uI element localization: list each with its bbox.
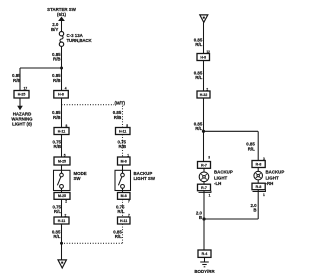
wire	[61, 135, 63, 158]
pin 1	[127, 154, 129, 158]
wire label 0.85 R/B	[52, 73, 61, 83]
wire label 0.75 R/B	[52, 140, 61, 150]
svg-text:BACKUP: BACKUP	[214, 170, 233, 175]
wire label 0.85 R/B	[52, 110, 61, 120]
svg-text:LIGHT: LIGHT	[214, 175, 227, 180]
svg-text:R/B: R/B	[53, 144, 61, 149]
junction node	[60, 67, 63, 70]
wire label 0.85 R/L	[194, 37, 203, 47]
svg-text:R/L: R/L	[195, 126, 202, 131]
switch MODE SW	[54, 170, 71, 190]
svg-text:B: B	[253, 207, 256, 212]
node STARTER SW label	[47, 7, 77, 17]
svg-text:R/B: R/B	[114, 115, 122, 120]
svg-text:R/L: R/L	[115, 234, 122, 239]
pin 2	[65, 214, 67, 218]
wire dotted	[122, 224, 124, 243]
svg-text:R-4: R-4	[202, 252, 208, 256]
svg-text:7: 7	[128, 200, 130, 204]
connector R-7	[198, 162, 211, 169]
svg-text:TURN,BACK: TURN,BACK	[67, 38, 93, 43]
svg-text:LIGHT: LIGHT	[266, 175, 279, 180]
svg-text:B/Y: B/Y	[51, 27, 58, 32]
svg-text:LIGHT SW: LIGHT SW	[134, 176, 156, 181]
svg-text:R/B: R/B	[53, 78, 61, 83]
wire (M/T) dotted branch	[62, 104, 115, 106]
svg-text:R/B: R/B	[13, 78, 21, 83]
svg-text:H-8: H-8	[200, 55, 206, 59]
svg-text:R/L: R/L	[248, 146, 255, 151]
connector H-8	[197, 54, 210, 61]
svg-text:R-8: R-8	[256, 163, 262, 167]
svg-text:(6/1): (6/1)	[57, 12, 67, 17]
svg-text:B: B	[199, 215, 202, 220]
lamp BACKUP LIGHT -RH	[254, 171, 263, 180]
svg-text:M-25: M-25	[58, 194, 66, 198]
connector H-8	[54, 91, 69, 99]
connector H-32	[197, 91, 210, 98]
wire label 0.85 R/L	[52, 230, 61, 240]
wire label 0.85 R/B	[52, 52, 61, 62]
wire label 2.0 B	[250, 203, 257, 213]
wire label 0.75 R/L	[52, 204, 61, 214]
wire	[203, 182, 205, 185]
lamp BACKUP LIGHT -LH	[199, 172, 209, 182]
svg-text:M-25: M-25	[58, 159, 66, 163]
wire	[61, 46, 63, 90]
svg-text:17: 17	[24, 86, 28, 90]
svg-text:R/B: R/B	[53, 115, 61, 120]
svg-text:R-7: R-7	[201, 186, 207, 190]
wire label 0.75 R/L	[116, 204, 125, 214]
wire	[203, 98, 205, 162]
wire label 0.85 R/B	[12, 73, 21, 83]
svg-text:H-11: H-11	[119, 129, 126, 133]
svg-text:H-11: H-11	[120, 219, 127, 223]
pin 8	[66, 124, 68, 128]
svg-text:R/L: R/L	[195, 75, 202, 80]
svg-text:2: 2	[65, 200, 67, 204]
svg-text:R-8: R-8	[256, 185, 262, 189]
pin 17	[24, 86, 28, 90]
wire to hazard branch	[20, 67, 62, 69]
junction node	[202, 217, 205, 220]
svg-text:H-25: H-25	[18, 93, 26, 97]
wire from RH lamp down	[257, 190, 259, 219]
connector H-11	[54, 128, 69, 135]
arrow from STARTER SW (filled, pointing up)	[58, 17, 65, 21]
svg-text:BODY/RR: BODY/RR	[194, 269, 215, 273]
junction node	[60, 242, 63, 245]
pin 1 bracket	[253, 190, 266, 192]
svg-text:R/B: R/B	[53, 56, 61, 61]
connector M-8	[118, 193, 131, 200]
node (M/T)	[115, 100, 126, 105]
wire dotted	[122, 199, 124, 217]
connector R-4	[198, 250, 211, 257]
wire label 0.85 R/L	[194, 122, 203, 132]
connector R-8	[252, 161, 265, 168]
connector H-11 (M/T)	[118, 217, 131, 224]
wire dotted down	[122, 106, 124, 128]
wire	[61, 165, 63, 173]
wire dotted join	[62, 242, 123, 244]
svg-text:(M/T): (M/T)	[115, 100, 126, 105]
svg-text:LIGHT (8): LIGHT (8)	[12, 121, 32, 126]
node HAZARD WARNING LIGHT (8)	[11, 111, 33, 126]
svg-text:R/L: R/L	[54, 209, 61, 214]
wire dotted	[122, 135, 124, 158]
wire label 2.0 B/Y	[51, 22, 59, 32]
wire label 0.85 R/L	[246, 142, 255, 152]
svg-text:R/L: R/L	[117, 209, 124, 214]
wire	[203, 61, 205, 92]
svg-text:R-7: R-7	[201, 163, 207, 167]
wire join	[204, 218, 258, 220]
wire	[203, 191, 205, 250]
connector M-25	[54, 193, 70, 200]
pin 7	[128, 214, 130, 218]
wire	[203, 22, 205, 53]
svg-text:1: 1	[209, 194, 211, 198]
svg-text:H-11: H-11	[58, 219, 65, 223]
wire label 0.85 R/B	[113, 110, 122, 120]
fuse C-3 13A TURN,BACK	[59, 32, 63, 36]
pin 4	[65, 87, 67, 91]
wire label 0.85 R/L	[194, 71, 203, 81]
svg-text:H-8: H-8	[58, 93, 64, 97]
ground BODY/RR	[204, 257, 206, 262]
pin 1 bracket	[199, 191, 212, 193]
connector M-8	[118, 157, 131, 165]
wire	[61, 98, 63, 128]
svg-text:H-11: H-11	[58, 129, 65, 133]
wire	[19, 98, 21, 106]
wire label 0.75 R/B	[117, 140, 126, 150]
svg-text:M-8: M-8	[121, 194, 127, 198]
connector H-25	[14, 91, 29, 99]
wire	[61, 199, 63, 217]
pin 5	[126, 124, 128, 128]
svg-text:R/L: R/L	[195, 42, 202, 47]
svg-text:R/B: R/B	[118, 144, 126, 149]
wire to RH branch	[204, 130, 259, 132]
wire label 2.0 B	[196, 210, 203, 220]
connector H-11 (M/T)	[116, 128, 131, 135]
arrow to hazard warning light (filled, pointing down)	[17, 106, 23, 110]
svg-text:R/L: R/L	[53, 234, 60, 239]
pin 3	[208, 155, 210, 159]
pin 3	[263, 157, 265, 161]
svg-text:BACKUP: BACKUP	[266, 170, 285, 175]
pin 2	[65, 200, 67, 204]
svg-text:SW: SW	[74, 176, 82, 181]
svg-text:M-8: M-8	[121, 159, 127, 163]
wire label 0.85 R/L	[113, 230, 122, 240]
junction node	[202, 130, 205, 133]
connector M-25	[54, 157, 70, 165]
pin 12	[206, 50, 210, 54]
pin 2	[206, 87, 208, 91]
wire	[203, 168, 205, 172]
connector H-11	[54, 217, 69, 224]
switch BACKUP LIGHT SW	[115, 170, 131, 190]
off-page arrow V (open triangle down, right page)	[200, 15, 208, 23]
wire	[61, 224, 63, 260]
off-page arrow V (open triangle down)	[58, 260, 66, 268]
wire	[61, 21, 63, 32]
svg-text:3: 3	[208, 155, 210, 159]
svg-text:-LH: -LH	[214, 181, 221, 186]
connector R-8	[252, 183, 265, 190]
pin 5	[64, 154, 66, 158]
svg-text:H-32: H-32	[200, 93, 208, 97]
wire	[61, 188, 63, 192]
pin 7	[128, 200, 130, 204]
svg-text:1: 1	[263, 193, 265, 197]
connector R-7	[198, 184, 211, 191]
svg-text:-RH: -RH	[266, 181, 274, 186]
